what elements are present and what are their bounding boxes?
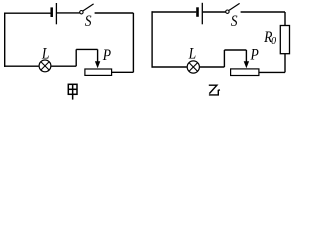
switch S blade [83,4,94,11]
wire: right vertical lower [284,54,286,73]
rheostat wiper arrow P [97,49,99,62]
resistor R0 body [280,26,289,54]
label 甲 (drawn) [68,84,77,99]
battery B1 negative plate (short thick) [50,7,53,17]
wire: lamp to step [51,65,76,67]
svg-text:0: 0 [271,36,276,47]
wire: switch to top-right corner [241,11,285,13]
wire: step vertical down [223,50,225,67]
wire: bottom-right to rheostat [112,71,134,73]
switch S2 blade [229,3,240,10]
wire: left vertical [151,11,153,67]
wire: lamp to step [200,66,225,68]
svg-text:L: L [41,46,49,63]
rheostat wiper arrow P2 [245,50,247,63]
wire: battery to switch [203,11,226,13]
wire: wiper top horizontal [224,49,246,51]
switch S pivot [80,11,83,14]
wire: step vertical down [75,49,77,66]
battery B2 negative plate (short thick) [196,7,199,16]
rheostat R body [85,69,112,75]
svg-text:S: S [231,13,238,30]
wire: right vertical [132,13,134,72]
switch S2 pivot [226,10,229,13]
lamp L [39,60,51,72]
svg-text:P: P [102,47,111,64]
wire: battery to switch [57,12,80,14]
wire: lamp to bottom-left [152,66,187,68]
wire: bottom-right to rheostat [259,71,285,73]
label 乙 (drawn) [209,85,220,95]
wire: lamp to bottom-left [4,65,39,67]
svg-text:L: L [188,45,196,62]
lamp L2 [187,61,199,73]
battery B2 positive plate (long thin) [201,3,203,25]
svg-text:S: S [85,13,92,30]
wire: top-left horizontal to battery [4,12,51,14]
wire: top-left horizontal to battery [152,11,197,13]
svg-text:P: P [250,46,259,63]
wire: switch to top-right corner [95,12,134,14]
wire: right vertical upper [284,12,286,26]
wire: wiper top horizontal [76,48,97,50]
battery B1 positive plate (long thin) [55,3,57,24]
rheostat R2 body [231,69,259,76]
wire: left vertical [4,13,6,67]
